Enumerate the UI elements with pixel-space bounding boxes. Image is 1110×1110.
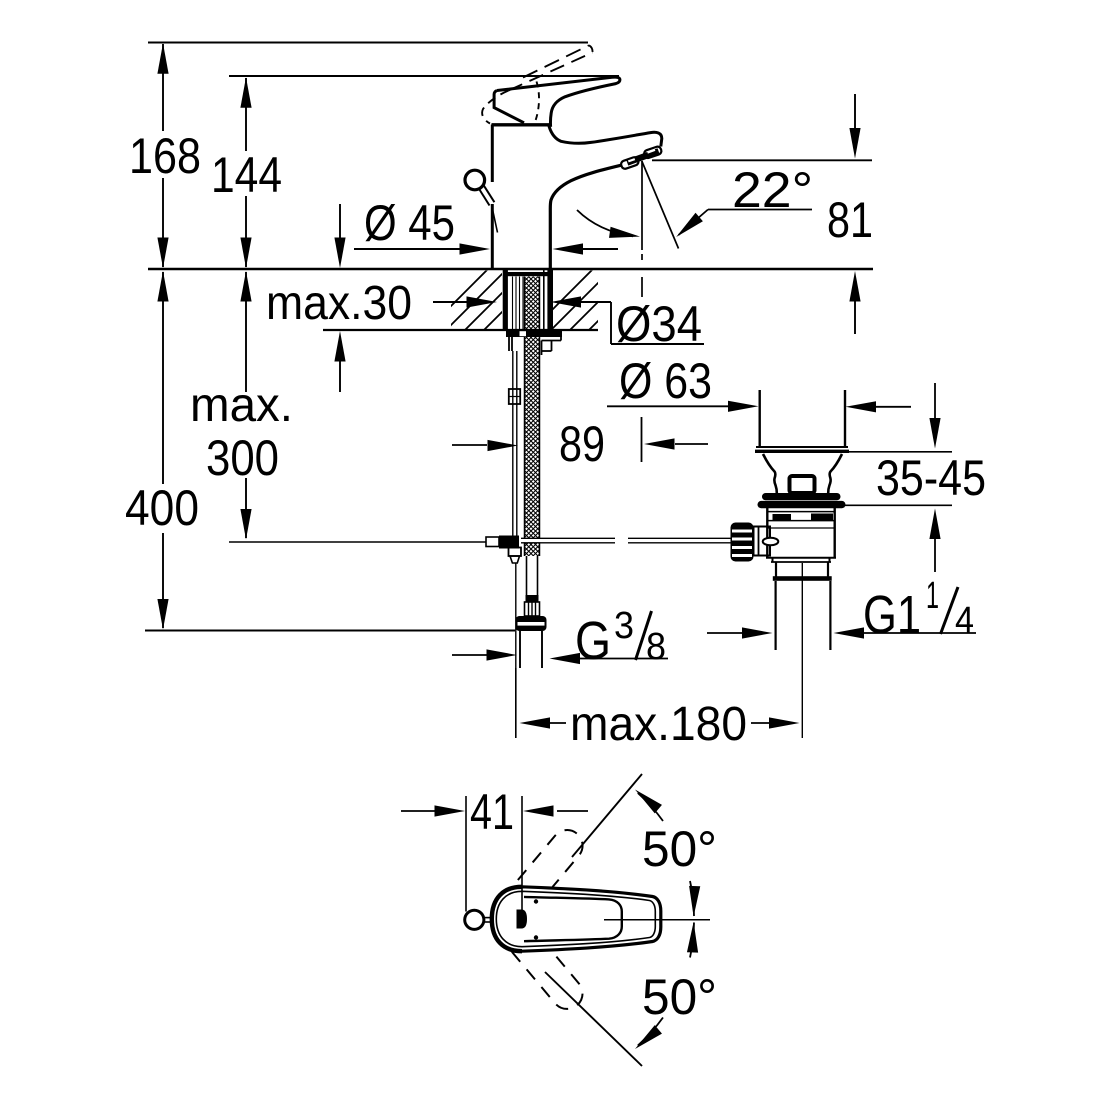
aerator (dark slanted bar) <box>627 151 658 162</box>
threaded shank right wall <box>547 269 553 330</box>
counter section bottom line <box>323 329 598 331</box>
extension line of max.300 at pop-up rod level <box>229 541 486 543</box>
drain flange cylinder <box>759 390 761 446</box>
svg-text:168: 168 <box>129 128 201 184</box>
svg-text:3: 3 <box>614 605 634 647</box>
drain body <box>766 507 768 558</box>
spout-centre extension line for 89 <box>641 417 643 462</box>
side knob ball (top view) <box>465 910 484 929</box>
pop-up knob stem <box>479 189 490 206</box>
rod pivot ball (ellipse) <box>763 538 779 546</box>
handle top-view outer outline <box>492 887 661 951</box>
countertop surface line <box>148 268 873 271</box>
water stream angle arc arrow <box>577 210 633 236</box>
G3/8 threaded pipe end <box>519 631 521 668</box>
41 dimension arrows <box>401 810 435 812</box>
aerator housing lower lip (rounded outline) <box>620 156 639 169</box>
35-45 lower reference line <box>843 504 952 506</box>
35-45 dimension arrows <box>934 383 936 418</box>
pop-up knob ball on body <box>465 170 485 190</box>
drain neck (concave) <box>763 454 777 493</box>
svg-text:G1: G1 <box>863 585 921 645</box>
hose crimp collar <box>526 595 539 602</box>
G1 1/4 dimension arrows <box>707 632 742 634</box>
svg-text:50°: 50° <box>642 969 717 1025</box>
smooth hose section <box>526 556 528 596</box>
drain body lower step <box>772 558 774 562</box>
handle top-view inner outline <box>496 891 655 946</box>
89 dimension arrows <box>452 444 487 446</box>
spout top edge <box>549 126 662 147</box>
faucet centre extension line down to max.180 <box>515 564 517 739</box>
dimension 144 vertical line <box>245 78 247 151</box>
lower extent line of 400 dimension <box>145 630 515 632</box>
svg-text:8: 8 <box>646 626 666 668</box>
tailpipe union band <box>773 576 832 581</box>
dashed handle rotated up 50 <box>493 824 589 930</box>
threaded shank left wall <box>503 269 508 330</box>
drain plug pin (square knob) <box>790 476 815 493</box>
svg-text:max.180: max.180 <box>570 698 747 751</box>
dashed handle rotated down 50 <box>493 910 589 1016</box>
lever base cap line <box>492 123 550 126</box>
svg-text:Ø 45: Ø 45 <box>364 195 455 251</box>
pop-up rod (horizontal) <box>521 539 615 542</box>
reference line at lever top (144 upper extent) <box>229 75 619 77</box>
top reference line (168 upper extent) <box>148 42 588 44</box>
lower 50° dimension arc and arrows <box>638 1018 663 1046</box>
svg-text:400: 400 <box>125 480 199 536</box>
svg-text:50°: 50° <box>642 821 717 877</box>
35-45 upper reference line <box>848 451 952 453</box>
handle centre dark blob <box>517 910 528 929</box>
shank top gasket bar <box>503 272 548 276</box>
50 angle leg line lower <box>545 972 642 1066</box>
faucet body left edge <box>491 125 494 183</box>
faucet lever handle (solid outline) <box>497 77 620 127</box>
Ø45 dimension arrows at faucet base <box>354 248 460 250</box>
drain seal ring (black band, two tiers) <box>762 493 841 500</box>
handle grip inner shape <box>524 897 622 941</box>
spout outlet vertical centre line <box>641 161 643 250</box>
svg-text:144: 144 <box>211 147 282 203</box>
drain centre line <box>801 563 803 738</box>
svg-text:max.30: max.30 <box>266 277 412 330</box>
upper 50° dimension arc and arrows <box>638 793 663 821</box>
50 angle leg line upper <box>572 774 642 857</box>
handle detail dots <box>534 899 538 903</box>
dimension 400 vertical line <box>162 272 164 484</box>
dimension max.30 vertical arrows <box>339 204 341 238</box>
G3/8 hose nut <box>516 616 547 631</box>
svg-text:41: 41 <box>470 784 514 840</box>
svg-text:1: 1 <box>926 575 939 617</box>
stud end nut <box>509 548 522 557</box>
knob stub lines <box>484 917 493 919</box>
pop-up rod left end piece <box>486 537 499 547</box>
dimension max.180 <box>515 668 517 738</box>
max.30 horizontal arrows at counter section <box>433 301 467 303</box>
spout underside edge <box>550 164 625 268</box>
dimension 168 vertical line <box>162 44 164 131</box>
dimension max.300 vertical line <box>245 272 247 392</box>
svg-text:35-45: 35-45 <box>876 450 986 506</box>
22° leader line with arrow to water stream <box>708 209 812 211</box>
mounting nut profile <box>508 337 510 351</box>
Ø63 dimension arrows <box>607 405 728 407</box>
41 dimension extension lines <box>465 796 467 912</box>
leader line to Ø34 label <box>610 302 612 344</box>
svg-text:89: 89 <box>559 416 605 472</box>
svg-text:300: 300 <box>206 430 279 486</box>
handle back arc emphasis <box>492 887 522 951</box>
svg-text:max.: max. <box>190 379 293 432</box>
hidden cartridge dome (dashed) <box>536 82 540 121</box>
supply pipes inside shank <box>512 277 514 331</box>
G3/8 left dimension arrow <box>452 654 487 656</box>
horizontal centre line of handle <box>604 919 710 921</box>
svg-text:81: 81 <box>827 192 873 248</box>
threaded mounting stud <box>512 351 514 548</box>
pop-up rod adjusting knob (knurled) <box>731 523 754 562</box>
G3/8 label underline with arrow <box>580 658 668 660</box>
drain body slots <box>773 514 792 521</box>
svg-text:G: G <box>575 611 611 671</box>
hose connector fitting on stud <box>509 389 520 404</box>
svg-text:4: 4 <box>955 600 974 642</box>
dimension 81 vertical arrows <box>854 94 856 128</box>
ribbed connector <box>525 602 540 616</box>
mounting washer under counter <box>506 331 562 338</box>
svg-text:Ø 63: Ø 63 <box>619 353 712 409</box>
raised lever position (dashed) <box>523 45 589 77</box>
water stream line at 22 degrees <box>642 161 679 249</box>
svg-text:Ø34: Ø34 <box>616 296 702 352</box>
spout outlet reference line (81 upper extent) <box>652 159 872 161</box>
tailpipe G1 1/4 <box>774 581 776 650</box>
rod clamp block <box>754 527 771 556</box>
aerator housing upper cap (rounded outline) <box>643 146 662 159</box>
